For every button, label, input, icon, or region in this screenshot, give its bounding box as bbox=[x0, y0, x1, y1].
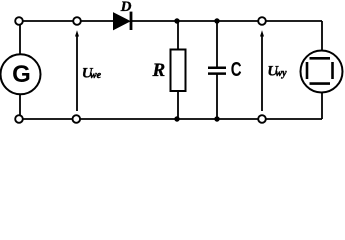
label Uwe bbox=[82, 65, 102, 81]
terminal: bottom output (open circle) bbox=[258, 115, 266, 123]
voltage arrow Uwe bbox=[75, 30, 79, 111]
svg-text:G: G bbox=[12, 61, 31, 88]
wire top bus: node B to output terminal and scope corner bbox=[217, 20, 322, 22]
wire bottom bus: node C to node D bbox=[177, 118, 217, 120]
wire: capacitor bottom lead bbox=[216, 75, 218, 120]
wire: generator top lead bbox=[19, 21, 21, 55]
voltage arrow Uwy bbox=[260, 30, 264, 111]
capacitor C (plates) bbox=[208, 68, 226, 74]
resistor R (rectangle) bbox=[171, 50, 186, 92]
wire: scope top lead (corner drop) bbox=[321, 21, 323, 51]
svg-text:R: R bbox=[152, 60, 166, 81]
node A junction dot (R top) bbox=[174, 18, 179, 23]
generator G (sine source circle) bbox=[1, 54, 41, 94]
oscilloscope (circle with screen) bbox=[301, 51, 343, 93]
wire top bus: input terminal to diode anode bbox=[20, 20, 114, 22]
svg-text:we: we bbox=[90, 70, 102, 81]
terminal: top after generator (open circle) bbox=[73, 17, 81, 25]
wire top bus: node A to node B bbox=[177, 20, 217, 22]
wire: generator bottom lead bbox=[19, 95, 21, 120]
node C junction dot (R bottom) bbox=[174, 116, 179, 121]
terminal: bottom after generator (open circle) bbox=[73, 115, 81, 123]
label Uwy bbox=[267, 63, 287, 79]
terminal: top output (open circle) bbox=[258, 17, 266, 25]
terminal: bottom input (open circle) bbox=[15, 115, 23, 123]
wire bottom bus: left terminal to node C bbox=[20, 118, 177, 120]
wire: resistor top lead bbox=[177, 21, 179, 50]
wire: resistor bottom lead bbox=[177, 91, 179, 120]
node D junction dot (C bottom) bbox=[214, 116, 219, 121]
wire: capacitor top lead bbox=[216, 21, 218, 67]
wire: scope bottom lead bbox=[321, 93, 323, 120]
svg-text:C: C bbox=[231, 58, 242, 81]
diode D bbox=[114, 12, 132, 30]
terminal: top input (open circle) bbox=[15, 17, 23, 25]
svg-text:D: D bbox=[120, 0, 132, 15]
node B junction dot (C top) bbox=[214, 18, 219, 23]
wire bottom bus: node D to scope riser bbox=[217, 118, 322, 120]
wire top bus: diode cathode to node A bbox=[131, 20, 177, 22]
svg-text:wy: wy bbox=[276, 68, 288, 79]
